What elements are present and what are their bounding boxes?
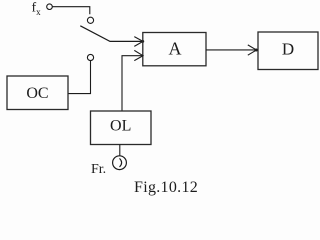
wire OC to lower contact: [68, 61, 91, 94]
svg-text:Fig.10.12: Fig.10.12: [134, 179, 198, 196]
arrowhead into A upper input: [134, 37, 143, 47]
switch lower contact: [87, 54, 93, 60]
wire OL to A lower input: [122, 56, 143, 111]
block OC: [7, 76, 68, 110]
wire fx to switch pole: [52, 7, 89, 15]
terminal fx: [47, 4, 53, 10]
block A: [143, 33, 206, 66]
arrowhead into D: [248, 45, 257, 55]
switch arm SW1: [80, 26, 143, 42]
wire OL to reference source: [119, 145, 121, 156]
arrowhead into A lower input: [134, 50, 143, 60]
svg-text:Fr.: Fr.: [91, 162, 106, 177]
switch pole contact: [87, 17, 93, 23]
svg-text:OL: OL: [110, 118, 131, 135]
svg-text:OC: OC: [26, 85, 48, 102]
block OL: [91, 111, 152, 145]
svg-text:D: D: [282, 40, 294, 59]
wire A to D: [206, 49, 255, 51]
svg-text:A: A: [169, 38, 182, 58]
reference source Fr: [113, 156, 127, 170]
block D: [258, 32, 318, 70]
